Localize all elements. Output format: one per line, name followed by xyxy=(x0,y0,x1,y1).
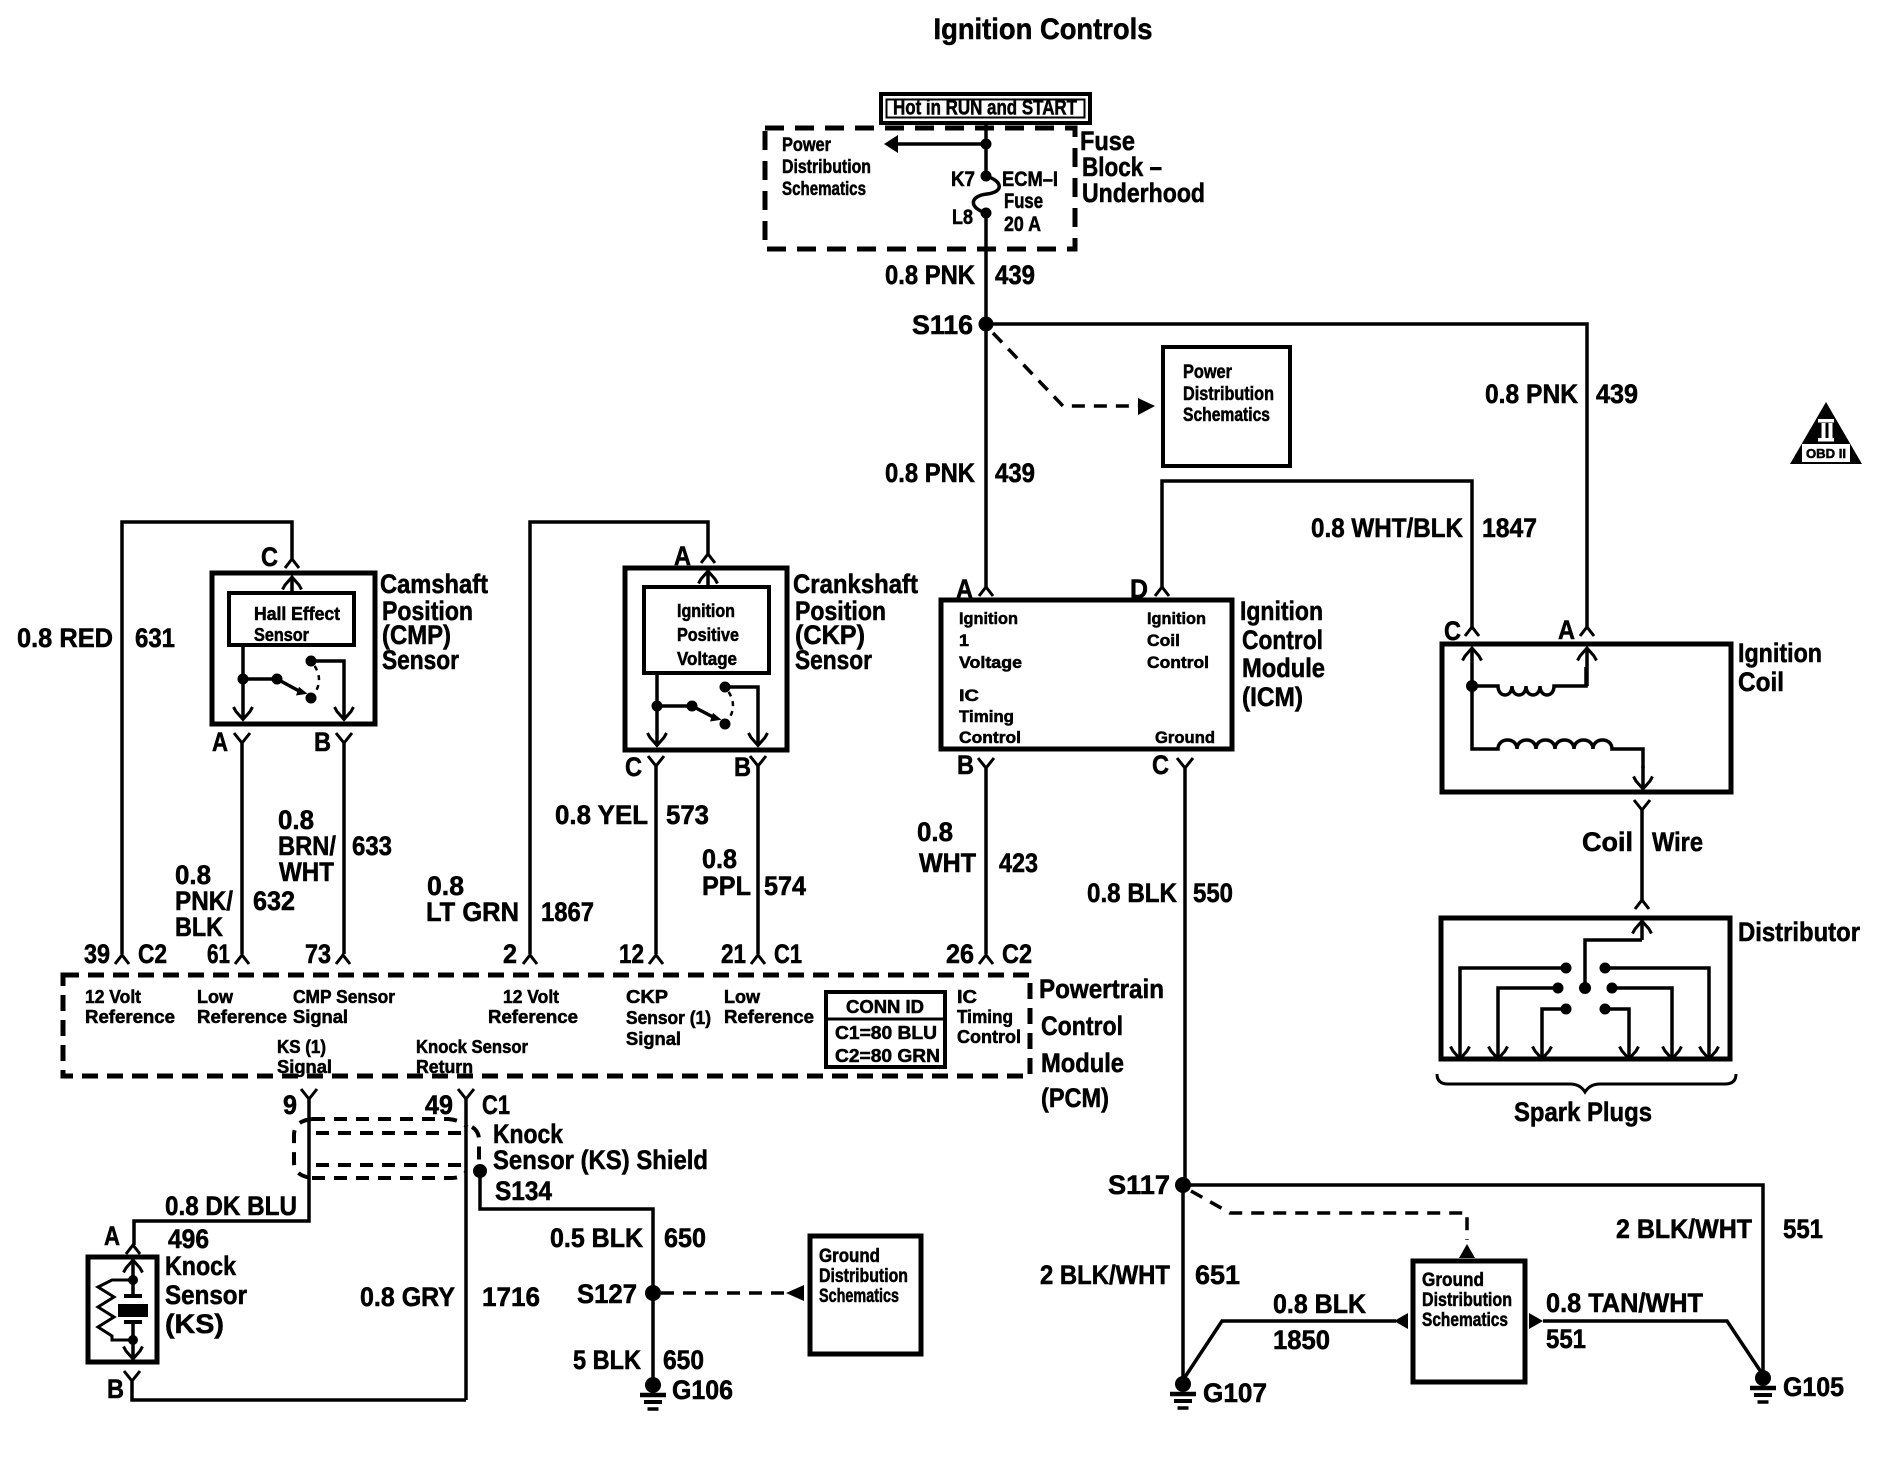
svg-text:21: 21 xyxy=(721,939,746,969)
svg-text:Knock: Knock xyxy=(165,1251,237,1281)
svg-text:BLK: BLK xyxy=(175,912,223,942)
CKP bottom arrow B xyxy=(749,733,768,746)
CMP inner arrow xyxy=(290,577,294,593)
CONN ID box xyxy=(826,992,945,1067)
dashed reference arrow S117 to ground distribution schematics xyxy=(1191,1191,1467,1240)
svg-text:Sensor (KS) Shield: Sensor (KS) Shield xyxy=(493,1145,708,1175)
svg-text:Schematics: Schematics xyxy=(819,1286,899,1307)
CKP pin C xyxy=(648,756,664,766)
svg-text:0.8 BLK: 0.8 BLK xyxy=(1273,1289,1366,1319)
svg-text:S134: S134 xyxy=(495,1176,552,1206)
svg-text:WHT: WHT xyxy=(279,857,334,887)
CMP switch xyxy=(241,645,245,720)
svg-text:C2: C2 xyxy=(138,939,167,969)
svg-text:0.8 PNK: 0.8 PNK xyxy=(1485,379,1578,409)
svg-text:61: 61 xyxy=(207,939,230,969)
svg-text:Signal: Signal xyxy=(293,1007,348,1027)
KS pin B xyxy=(124,1371,140,1381)
svg-text:1716: 1716 xyxy=(482,1282,540,1312)
svg-text:WHT: WHT xyxy=(919,848,976,878)
ground distribution schematics box (middle) xyxy=(810,1236,921,1354)
svg-text:Voltage: Voltage xyxy=(677,649,737,669)
powertrain control module dashed box xyxy=(63,975,1030,1076)
wire: 2 BLK/WHT 651 S117 to G107 xyxy=(1181,1185,1185,1380)
svg-text:C2: C2 xyxy=(1002,939,1032,969)
svg-text:OBD II: OBD II xyxy=(1806,446,1846,461)
PCM pin 73 xyxy=(336,955,350,964)
spark plugs brace xyxy=(1437,1074,1736,1092)
svg-text:423: 423 xyxy=(999,848,1038,878)
svg-text:Hall Effect: Hall Effect xyxy=(254,604,340,624)
ignition control module box xyxy=(941,600,1232,749)
svg-text:1: 1 xyxy=(959,631,969,650)
svg-text:L8: L8 xyxy=(952,206,973,229)
svg-text:Control: Control xyxy=(1242,625,1323,655)
ICM pin D xyxy=(1155,587,1169,596)
svg-text:0.8 GRY: 0.8 GRY xyxy=(360,1282,455,1312)
svg-text:9: 9 xyxy=(283,1090,297,1120)
svg-text:Control: Control xyxy=(1147,653,1209,672)
svg-text:S116: S116 xyxy=(912,310,973,340)
distributor rotor feed xyxy=(1640,921,1644,940)
svg-text:551: 551 xyxy=(1546,1324,1586,1354)
wire: 2 BLK/WHT 551 S117 to G105 xyxy=(1183,1185,1763,1371)
coil pin C xyxy=(1465,627,1479,636)
svg-text:IC: IC xyxy=(957,987,977,1007)
svg-text:CMP Sensor: CMP Sensor xyxy=(293,987,395,1007)
svg-text:Sensor: Sensor xyxy=(254,625,309,645)
svg-text:Knock Sensor: Knock Sensor xyxy=(416,1037,528,1057)
svg-text:Hot in RUN and START: Hot in RUN and START xyxy=(893,97,1077,120)
svg-text:Underhood: Underhood xyxy=(1082,178,1205,208)
distributor contact dots xyxy=(1561,963,1572,974)
svg-text:C: C xyxy=(625,752,642,782)
wire: 0.8 RED 631 PCM 39 to CMP C xyxy=(122,522,292,954)
svg-text:Signal: Signal xyxy=(626,1029,681,1049)
svg-text:Ignition: Ignition xyxy=(959,609,1018,628)
fuse F1 ECM-I 20A xyxy=(981,171,992,182)
wire: 0.8 BLK 550 ICM C to S117 xyxy=(1183,768,1187,1185)
wire: 0.8 PNK 439 S116 to ICM pin A xyxy=(984,324,988,587)
CKP inner arrow xyxy=(706,571,710,587)
node S116 xyxy=(979,317,994,332)
wire: 0.8 PPL 574 CKP B to PCM 21 xyxy=(756,766,760,954)
svg-text:Ground: Ground xyxy=(1422,1270,1484,1291)
svg-text:Fuse: Fuse xyxy=(1004,190,1043,213)
svg-text:1847: 1847 xyxy=(1482,513,1537,543)
wire: hot feed into fuse xyxy=(984,123,988,177)
coil internal arrow A xyxy=(1585,648,1589,686)
svg-text:K7: K7 xyxy=(951,168,975,191)
KS internal dots xyxy=(128,1275,138,1285)
svg-text:B: B xyxy=(957,750,974,780)
PCM pin 26 C2 xyxy=(979,955,993,964)
svg-text:B: B xyxy=(314,727,331,757)
ground G107 xyxy=(1175,1376,1191,1392)
svg-text:0.5 BLK: 0.5 BLK xyxy=(550,1223,643,1253)
svg-text:551: 551 xyxy=(1783,1214,1823,1244)
svg-text:Reference: Reference xyxy=(488,1007,578,1027)
svg-text:Positive: Positive xyxy=(677,625,739,645)
svg-text:0.8 TAN/WHT: 0.8 TAN/WHT xyxy=(1546,1288,1703,1318)
svg-text:Sensor: Sensor xyxy=(382,645,459,675)
svg-text:Power: Power xyxy=(1183,362,1233,383)
svg-text:2 BLK/WHT: 2 BLK/WHT xyxy=(1616,1214,1752,1244)
wire: 0.5 BLK 650 S134 to S127 xyxy=(480,1171,653,1291)
svg-text:0.8 DK BLU: 0.8 DK BLU xyxy=(165,1191,297,1221)
svg-text:Return: Return xyxy=(416,1057,473,1077)
svg-text:0.8 WHT/BLK: 0.8 WHT/BLK xyxy=(1311,513,1463,543)
svg-text:1850: 1850 xyxy=(1273,1325,1330,1355)
svg-text:ECM–I: ECM–I xyxy=(1002,168,1058,191)
svg-text:C: C xyxy=(261,542,278,572)
svg-text:Low: Low xyxy=(197,987,234,1007)
wire: KS B to 0.8 GRY xyxy=(132,1381,466,1400)
svg-text:G106: G106 xyxy=(672,1375,733,1405)
svg-text:Distribution: Distribution xyxy=(782,157,871,178)
camshaft position sensor box xyxy=(212,573,375,724)
svg-text:Coil: Coil xyxy=(1738,667,1784,697)
power distribution schematics box xyxy=(1163,347,1290,466)
svg-text:Low: Low xyxy=(724,987,761,1007)
svg-text:Module: Module xyxy=(1242,653,1325,683)
ground G105 xyxy=(1755,1370,1771,1386)
svg-text:Reference: Reference xyxy=(197,1007,287,1027)
svg-text:A: A xyxy=(104,1221,120,1251)
svg-text:573: 573 xyxy=(666,800,709,830)
svg-text:574: 574 xyxy=(764,871,806,901)
coil output arrow xyxy=(1641,766,1645,789)
svg-text:Camshaft: Camshaft xyxy=(380,569,488,599)
distributor wire left 2 xyxy=(1498,988,1558,1059)
PCM pin 12 xyxy=(649,955,663,964)
svg-text:C1: C1 xyxy=(774,939,802,969)
ignition positive voltage box xyxy=(644,587,769,673)
distributor wire right 2 xyxy=(1612,988,1672,1059)
coil primary winding xyxy=(1472,667,1586,695)
coil wire xyxy=(1640,810,1644,900)
wire: 0.8 PNK 439 fuse to S116 xyxy=(984,213,988,325)
wire: 0.8 BRN/WHT 633 CMP B to PCM 73 xyxy=(342,743,346,954)
svg-text:439: 439 xyxy=(995,260,1035,290)
svg-text:(PCM): (PCM) xyxy=(1041,1083,1109,1113)
knock sensor box xyxy=(88,1257,157,1362)
svg-text:Ignition Controls: Ignition Controls xyxy=(934,13,1153,46)
svg-text:Control: Control xyxy=(1041,1011,1123,1041)
PCM pin 9 xyxy=(301,1089,317,1099)
wire: 0.8 WHT 423 ICM B to PCM 26 xyxy=(984,768,988,954)
distributor wire right 3 xyxy=(1605,1009,1629,1059)
wire: 0.8 GRY 1716 PCM 49 to KS B xyxy=(464,1099,468,1400)
node S117 xyxy=(1175,1177,1191,1193)
distributor box xyxy=(1441,918,1730,1059)
svg-text:0.8 PNK: 0.8 PNK xyxy=(885,458,975,488)
arrow into ground distribution schematics (left) xyxy=(1394,1313,1408,1329)
CMP pin C xyxy=(285,559,299,568)
distributor input chevron xyxy=(1635,900,1649,909)
KS inner bottom arrow xyxy=(131,1340,135,1359)
svg-text:26: 26 xyxy=(946,939,974,969)
svg-text:20 A: 20 A xyxy=(1004,213,1041,236)
svg-text:Coil: Coil xyxy=(1582,827,1633,857)
svg-text:Distribution: Distribution xyxy=(1422,1290,1512,1311)
wire: 0.8 TAN/WHT 551 to G105 xyxy=(1543,1321,1761,1372)
distributor center dot xyxy=(1579,982,1591,994)
CKP pin A xyxy=(701,554,715,563)
svg-text:LT GRN: LT GRN xyxy=(426,897,519,927)
svg-text:G107: G107 xyxy=(1203,1378,1267,1408)
svg-text:Control: Control xyxy=(957,1027,1021,1047)
svg-text:Crankshaft: Crankshaft xyxy=(793,569,918,599)
dashed reference arrow S116 to power distribution schematics xyxy=(993,333,1138,406)
wire: 0.8 YEL 573 CKP C to PCM 12 xyxy=(654,766,658,954)
svg-text:Schematics: Schematics xyxy=(1422,1310,1508,1331)
node S127 xyxy=(645,1285,661,1301)
PCM pin 61 xyxy=(235,955,249,964)
knock sensor shield dashed loops xyxy=(294,1119,312,1178)
svg-text:KS (1): KS (1) xyxy=(277,1037,326,1057)
PCM pin 21 C1 xyxy=(751,955,765,964)
svg-text:C: C xyxy=(1152,750,1169,780)
svg-text:Reference: Reference xyxy=(724,1007,814,1027)
svg-text:633: 633 xyxy=(352,831,392,861)
svg-text:Schematics: Schematics xyxy=(782,179,866,200)
svg-text:Schematics: Schematics xyxy=(1183,405,1270,426)
PCM pin 49 C1 xyxy=(458,1089,474,1099)
svg-text:G105: G105 xyxy=(1783,1372,1844,1402)
svg-text:Timing: Timing xyxy=(957,1007,1013,1027)
CKP switch xyxy=(655,673,659,746)
svg-text:Module: Module xyxy=(1041,1048,1124,1078)
svg-text:PPL: PPL xyxy=(702,871,751,901)
wire: 0.8 WHT/BLK 1847 ICM D to coil C xyxy=(1162,481,1472,627)
CMP pin B xyxy=(336,733,352,743)
svg-text:B: B xyxy=(107,1374,124,1404)
CMP bottom arrow B xyxy=(335,707,354,720)
svg-text:Distribution: Distribution xyxy=(1183,384,1274,405)
svg-text:Sensor: Sensor xyxy=(795,645,872,675)
svg-text:650: 650 xyxy=(663,1345,704,1375)
svg-text:Ignition: Ignition xyxy=(1240,596,1323,626)
svg-text:12 Volt: 12 Volt xyxy=(85,987,141,1007)
svg-text:439: 439 xyxy=(1596,379,1638,409)
svg-text:Ignition: Ignition xyxy=(677,601,735,621)
svg-text:S127: S127 xyxy=(577,1279,637,1309)
CKP pin B xyxy=(750,756,766,766)
svg-text:632: 632 xyxy=(253,886,295,916)
PCM pin 2 xyxy=(523,955,537,964)
coil pin A xyxy=(1580,627,1594,636)
svg-text:550: 550 xyxy=(1193,878,1233,908)
wire: 5 BLK 650 S127 to G106 xyxy=(651,1293,655,1381)
hot in RUN and START box xyxy=(881,94,1090,123)
coil internal arrow C xyxy=(1470,648,1474,681)
svg-text:Coil: Coil xyxy=(1147,631,1180,650)
coil secondary winding xyxy=(1472,686,1643,768)
svg-text:A: A xyxy=(1558,615,1575,645)
distributor wire left 3 xyxy=(1542,1009,1566,1059)
svg-text:C1=80 BLU: C1=80 BLU xyxy=(835,1023,937,1043)
svg-text:0.8: 0.8 xyxy=(702,844,737,874)
svg-text:CONN ID: CONN ID xyxy=(846,997,924,1017)
CMP pin A xyxy=(234,733,250,743)
svg-text:Sensor: Sensor xyxy=(165,1280,247,1310)
svg-text:2: 2 xyxy=(503,939,517,969)
svg-text:A: A xyxy=(212,727,228,757)
svg-text:49: 49 xyxy=(425,1090,453,1120)
ICM pin C xyxy=(1177,758,1193,768)
svg-text:S117: S117 xyxy=(1108,1170,1170,1200)
svg-text:CKP: CKP xyxy=(626,987,668,1007)
coil output chevron xyxy=(1634,800,1650,810)
svg-text:Spark Plugs: Spark Plugs xyxy=(1514,1097,1652,1127)
ignition coil box xyxy=(1442,644,1731,792)
wire: S116 branch right xyxy=(986,324,1587,627)
dashed reference arrow S127 to ground distribution schematics xyxy=(661,1291,786,1295)
svg-text:(KS): (KS) xyxy=(165,1309,224,1339)
distributor wire left 1 xyxy=(1460,968,1566,1059)
KS piezo element xyxy=(131,1280,135,1295)
svg-text:631: 631 xyxy=(135,623,175,653)
coil junction dot xyxy=(1466,680,1478,692)
arrow out of ground distribution schematics (right) xyxy=(1529,1313,1543,1329)
svg-text:0.8 BLK: 0.8 BLK xyxy=(1087,878,1177,908)
svg-text:2 BLK/WHT: 2 BLK/WHT xyxy=(1040,1260,1170,1290)
svg-text:73: 73 xyxy=(305,939,331,969)
ICM pin B xyxy=(978,758,994,768)
wire: 0.8 BLK 1850 G107 to schematics xyxy=(1183,1321,1396,1380)
wire: 0.8 PNK/BLK 632 CMP A to PCM 61 xyxy=(240,743,244,954)
svg-text:651: 651 xyxy=(1195,1260,1240,1290)
hall effect sensor box xyxy=(229,593,354,645)
svg-text:Reference: Reference xyxy=(85,1007,175,1027)
svg-text:Ground: Ground xyxy=(819,1246,880,1267)
svg-text:39: 39 xyxy=(84,939,110,969)
svg-text:12: 12 xyxy=(619,939,644,969)
KS inner top arrow xyxy=(131,1260,135,1279)
CKP bottom arrow C xyxy=(648,733,667,746)
svg-text:1867: 1867 xyxy=(541,897,594,927)
svg-text:C2=80 GRN: C2=80 GRN xyxy=(835,1046,940,1066)
svg-text:0.8 PNK: 0.8 PNK xyxy=(885,260,975,290)
wire: 0.8 DK BLU 496 PCM 9 to KS A xyxy=(134,1099,309,1245)
svg-text:0.8: 0.8 xyxy=(917,817,953,847)
svg-text:439: 439 xyxy=(995,458,1035,488)
svg-text:Distributor: Distributor xyxy=(1738,917,1860,947)
wire: 0.8 LT GRN 1867 PCM 2 to CKP A xyxy=(530,522,708,954)
svg-text:Signal: Signal xyxy=(277,1057,332,1077)
svg-text:0.8 RED: 0.8 RED xyxy=(17,623,113,653)
svg-text:Control: Control xyxy=(959,728,1021,747)
svg-text:B: B xyxy=(734,752,751,782)
svg-text:650: 650 xyxy=(664,1223,706,1253)
KS resistor xyxy=(98,1280,133,1340)
svg-text:12 Volt: 12 Volt xyxy=(503,987,559,1007)
distributor wire right 1 xyxy=(1605,968,1709,1059)
KS pin A xyxy=(126,1245,140,1254)
OBD II symbol xyxy=(1790,402,1862,464)
PCM pin 39 C2 xyxy=(115,955,129,964)
CMP bottom arrow A xyxy=(234,707,253,720)
svg-text:Power: Power xyxy=(782,135,832,156)
ground distribution schematics box (right) xyxy=(1413,1261,1525,1382)
svg-text:5 BLK: 5 BLK xyxy=(573,1345,641,1375)
svg-text:Distribution: Distribution xyxy=(819,1266,908,1287)
ICM pin A xyxy=(979,587,993,596)
fuse block dashed box xyxy=(765,128,1075,249)
svg-text:Wire: Wire xyxy=(1652,827,1703,857)
svg-text:0.8 YEL: 0.8 YEL xyxy=(555,800,648,830)
svg-text:496: 496 xyxy=(168,1224,209,1254)
svg-text:(ICM): (ICM) xyxy=(1242,682,1303,712)
arrow: power distribution feed (left) xyxy=(898,142,986,146)
svg-text:Powertrain: Powertrain xyxy=(1039,974,1164,1004)
svg-text:Timing: Timing xyxy=(959,707,1014,726)
svg-text:Ignition: Ignition xyxy=(1738,638,1822,668)
svg-text:Sensor (1): Sensor (1) xyxy=(626,1008,711,1028)
crankshaft position sensor box xyxy=(625,568,787,750)
svg-text:Voltage: Voltage xyxy=(959,653,1022,672)
junction dot below hot box xyxy=(981,139,992,150)
svg-text:Ground: Ground xyxy=(1155,728,1215,747)
svg-text:C1: C1 xyxy=(482,1090,510,1120)
node S134 xyxy=(473,1164,487,1178)
ground G106 xyxy=(645,1377,661,1393)
svg-text:Ignition: Ignition xyxy=(1147,609,1206,628)
svg-text:IC: IC xyxy=(959,686,979,705)
